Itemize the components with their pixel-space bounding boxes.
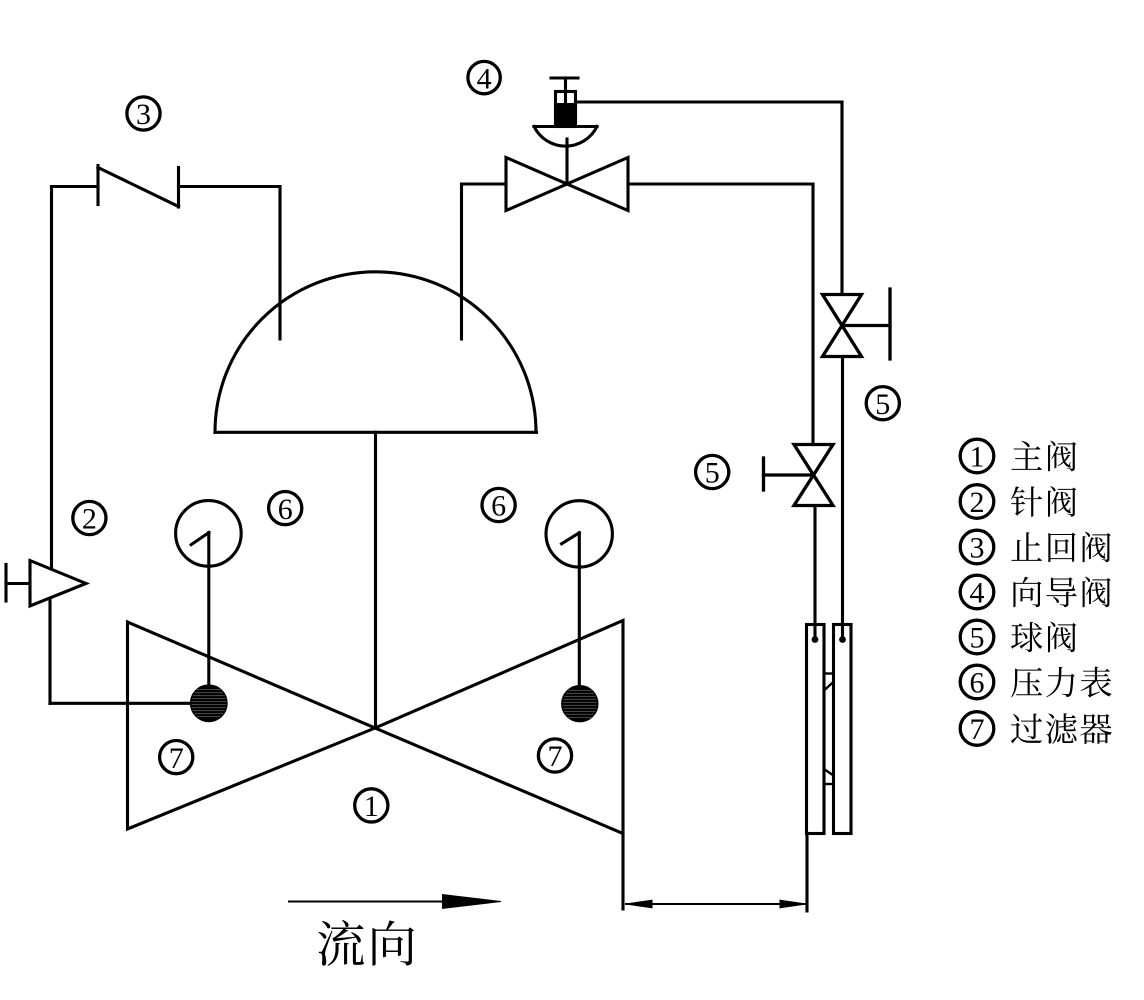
filter 7 right [562,686,598,722]
svg-text:3: 3 [970,532,985,565]
main valve 1 body left [128,622,376,829]
pilot valve actuator body [556,92,576,127]
ball valve 5 lower [764,445,834,506]
legend text 主阀 [1011,441,1076,472]
pilot valve stem [565,139,568,184]
legend circle 6 [960,665,994,700]
wire lower ball valve down to left tube [813,506,816,640]
wire check-valve right lead [179,185,281,188]
main valve stem [374,432,377,728]
svg-text:5: 5 [705,457,720,490]
wire needle valve down [48,599,51,703]
pilot valve 4 body [506,158,628,211]
legend text 过滤器 [1011,713,1112,744]
pilot valve handle stem [564,78,567,103]
label circle 7 right [538,739,571,773]
pilot valve handle bar [551,76,578,79]
label circle 5 left [696,455,729,489]
label circle 3 [127,97,160,131]
svg-text:4: 4 [970,577,985,610]
pressure gauge 6 right [546,501,612,704]
svg-text:7: 7 [548,740,563,773]
svg-text:2: 2 [82,503,97,536]
wire left branch down to needle valve [50,187,53,571]
wire down from check valve [278,187,281,272]
svg-text:7: 7 [970,713,985,746]
legend text 针阀 [1011,486,1076,517]
sensing tube right [834,625,852,834]
pressure gauge 6 left [176,501,242,704]
sensing tube left [807,625,825,834]
label circle 4 [468,61,500,95]
tube junction dot right [839,636,846,643]
pipe into dome right [460,184,463,339]
legend circle 2 [960,485,994,520]
flow direction arrow [289,895,501,909]
legend circle 7 [960,712,994,747]
label circle 6 right [482,488,515,522]
wire main valve outlet down [621,833,624,909]
wire pilot actuator to right drop [576,100,843,103]
legend text 向导阀 [1013,577,1110,608]
label circle 5 right [866,387,899,421]
label circle 1 [355,789,388,823]
check valve 3 [98,166,179,208]
ball valve 5 upper [823,289,891,359]
legend circle 1 [960,439,994,474]
wire upper ball valve down to right tube [841,357,844,640]
legend circle 5 [960,620,994,655]
wire left tube down [805,834,808,912]
main valve dome [215,272,537,433]
svg-text:5: 5 [875,388,890,421]
legend circle 4 [960,575,994,610]
tube junction dot left [812,636,819,643]
wire pilot valve right lead [628,182,813,185]
label circle 6 left [269,492,302,526]
svg-text:1: 1 [970,441,985,474]
legend text 止回阀 [1011,532,1110,563]
label circle 7 left [160,741,193,775]
tube break marks [824,674,834,785]
svg-text:3: 3 [136,98,151,131]
dimension line with arrows [626,900,806,908]
needle valve 2 [6,561,86,607]
legend text 压力表 [1011,667,1111,698]
wire check-valve left lead [52,185,98,188]
wire pilot valve left lead [462,182,507,185]
legend circle 3 [960,530,994,565]
wire right inner drop [811,184,814,444]
svg-text:6: 6 [491,490,506,523]
label circle 2 [73,501,106,535]
legend text 球阀 [1011,622,1076,653]
pilot valve diaphragm bowl [534,127,597,147]
svg-text:6: 6 [278,493,293,526]
pipe into dome left [278,271,281,339]
filter 7 left [190,685,227,722]
svg-text:5: 5 [970,622,985,655]
svg-text:1: 1 [364,790,379,823]
svg-text:7: 7 [169,742,184,775]
wire to left filter [50,702,209,705]
flow direction text [318,920,414,966]
svg-text:4: 4 [477,62,492,95]
wire right outer drop [840,102,843,295]
svg-text:2: 2 [970,486,985,519]
main valve 1 body right [375,621,623,834]
svg-text:6: 6 [970,667,985,700]
